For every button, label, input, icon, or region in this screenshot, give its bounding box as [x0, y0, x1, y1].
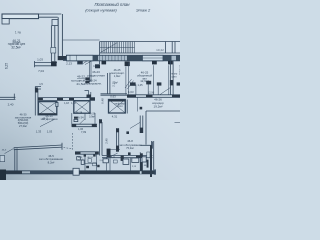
black blob on right wall [170, 80, 174, 85]
big room lower right [140, 111, 180, 149]
svg-text:0,63: 0,63 [110, 95, 116, 99]
wall below band at x90 [90, 61, 91, 82]
elevator shaft 2 [74, 101, 90, 113]
door swing diagonal [83, 57, 95, 64]
wall: top-left window sill band [2, 14, 39, 19]
top room divider right [165, 42, 175, 54]
column at junction [51, 61, 57, 66]
black pillar [107, 149, 111, 158]
stairs treads [101, 42, 134, 54]
secondary vertical wall [116, 128, 118, 150]
right sub-block walls [140, 152, 151, 171]
svg-text:75,2м²: 75,2м² [126, 146, 134, 150]
svg-text:раздаточная: раздаточная [87, 74, 105, 78]
door jamb with black base [78, 55, 83, 64]
corridor top walls with black caps [136, 84, 158, 95]
main wall band outline [67, 55, 181, 61]
svg-text:1,40: 1,40 [93, 64, 99, 68]
elevator block top wall [38, 98, 95, 101]
stair mid rail [100, 46, 135, 48]
its left wall [140, 116, 143, 134]
wall: thin double continuation to corner [39, 14, 62, 19]
WC cluster walls [72, 113, 95, 127]
small box on left edge [0, 156, 5, 162]
svg-text:1,5: 1,5 [39, 82, 43, 86]
sill left light part [67, 55, 94, 61]
svg-text:46-7: 46-7 [144, 165, 149, 167]
duct left pair [51, 26, 54, 62]
svg-text:8,2м²: 8,2м² [48, 160, 55, 164]
elevator shaft 3 [109, 100, 126, 114]
svg-text:1,9м²: 1,9м² [114, 74, 121, 78]
svg-text:19,2м²: 19,2м² [154, 104, 163, 108]
svg-text:12,96: 12,96 [148, 91, 155, 95]
svg-text:2,40: 2,40 [104, 138, 108, 144]
long vertical wall mid [100, 119, 103, 155]
svg-text:2,13: 2,13 [66, 62, 72, 66]
svg-text:1,03: 1,03 [37, 58, 43, 62]
svg-text:4,31: 4,31 [112, 115, 118, 119]
left vertical wall low [15, 148, 17, 170]
column box at left end [2, 19, 9, 24]
door tick right edge [175, 122, 181, 124]
svg-text:(секция нулевая): (секция нулевая) [85, 7, 117, 12]
door swing left [5, 148, 14, 153]
svg-text:46-8: 46-8 [127, 139, 133, 143]
bottom-left shadow [0, 0, 180, 180]
svg-text:46-28: 46-28 [76, 112, 83, 115]
bottom cluster top wall right part [102, 156, 152, 158]
dashed partition vertical [72, 133, 74, 150]
wall: vertical double down from corner [58, 14, 62, 57]
cluster fixtures [77, 157, 81, 160]
svg-text:1,03: 1,03 [47, 130, 53, 134]
light window section [143, 55, 164, 61]
thin line roof of lower block [63, 39, 100, 41]
elevator shaft 1 [38, 102, 56, 115]
extra cluster fixtures/marks [84, 155, 86, 157]
stairs strip outline [100, 42, 180, 65]
svg-text:27,0м²: 27,0м² [19, 124, 27, 128]
door swings top right of small room [125, 79, 134, 89]
dim line 2,13 [63, 59, 78, 60]
opening square in bottom wall [73, 168, 79, 175]
dark wall segments in band [93, 55, 98, 61]
black squares above wall [116, 149, 119, 152]
svg-text:0,48: 0,48 [101, 98, 105, 104]
svg-text:узел: узел [172, 75, 178, 78]
svg-text:7,04: 7,04 [38, 69, 44, 73]
bottom long wall [0, 171, 156, 174]
black cap right [95, 64, 100, 68]
corridor bottom wall [127, 95, 180, 98]
svg-text:6,25: 6,25 [5, 63, 9, 69]
corridor edge vertical [136, 97, 138, 111]
room divider verticals below band [126, 63, 169, 95]
svg-text:зал доставки: зал доставки [41, 117, 58, 121]
wall right of shaft3 [126, 100, 128, 114]
svg-text:1,6м²: 1,6м² [78, 158, 84, 161]
dark cap at bottom of vertical duct [58, 56, 67, 60]
svg-text:46-11: 46-11 [110, 157, 116, 159]
svg-text:1,45: 1,45 [137, 83, 143, 87]
bottom cluster dividers [85, 154, 141, 171]
svg-text:Этаж 2: Этаж 2 [136, 7, 151, 12]
fixtures black left of label [85, 77, 89, 80]
svg-text:46-6: 46-6 [2, 149, 7, 151]
dark blob bottom-left corner [0, 170, 6, 181]
svg-text:1,63: 1,63 [128, 90, 134, 94]
door diagonal [40, 120, 54, 127]
door slit in bottom wall [140, 171, 142, 174]
stair arrow diagonal [101, 43, 118, 53]
connector wall to shaft block [85, 91, 91, 98]
WC fixtures [74, 117, 78, 119]
end tick bottom wall [154, 169, 155, 174]
svg-text:32,5м²: 32,5м² [11, 46, 20, 50]
svg-text:холл: холл [117, 105, 123, 108]
right cluster wall bar [151, 141, 153, 170]
door swing into corridor [160, 87, 171, 94]
box on vertical duct [52, 20, 58, 26]
columns below band [102, 61, 107, 64]
small room walls x100-127 [107, 73, 110, 94]
svg-text:7,09: 7,09 [81, 130, 87, 134]
svg-text:веранда: веранда [179, 64, 180, 75]
svg-text:2,40: 2,40 [8, 103, 14, 107]
small black node in corridor [140, 107, 143, 110]
right outer wall double [170, 61, 173, 95]
svg-text:46-10: 46-10 [87, 157, 93, 159]
left low wall with tick [0, 94, 15, 100]
svg-text:1,18: 1,18 [64, 102, 69, 105]
svg-text:1,33: 1,33 [36, 130, 42, 134]
elevator block left wall [35, 87, 41, 116]
svg-text:2м³: 2м³ [114, 82, 118, 85]
svg-text:0,9м²: 0,9м² [89, 115, 95, 118]
svg-text:1 №: 1 № [15, 30, 22, 34]
wall: mid horizontal with end cap [35, 61, 58, 67]
mullion ticks [70, 55, 124, 61]
svg-text:10,42: 10,42 [156, 48, 164, 52]
paper background [0, 0, 180, 180]
door swing [130, 122, 140, 128]
wall 46-5 with end tick [14, 143, 63, 150]
small hatch box on duct [51, 48, 56, 54]
